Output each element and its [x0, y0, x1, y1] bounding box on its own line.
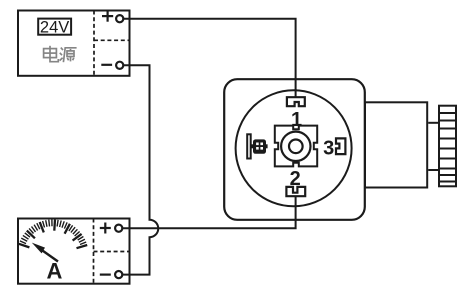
connector rear body — [365, 102, 427, 187]
pin 1 contact — [287, 97, 305, 106]
24V value box — [38, 19, 71, 35]
pin 2 contact — [286, 187, 305, 196]
center bore inner — [289, 140, 303, 154]
svg-text:A: A — [47, 258, 63, 283]
power terminal separator (dashed) — [94, 11, 129, 76]
ammeter terminal separator (dashed) — [94, 219, 130, 284]
center bore outer — [281, 132, 310, 161]
wire stub into pin 1 — [295, 89, 297, 97]
ground knurled screw — [251, 139, 267, 153]
ammeter needle — [32, 243, 58, 262]
connector face circle — [236, 90, 352, 206]
ammeter scale ticks — [19, 220, 87, 249]
label 电 (power supply) — [44, 46, 59, 62]
ammeter box M1 — [18, 219, 130, 284]
ground contact plate — [247, 134, 251, 158]
connector housing (DIN plug, front view) — [224, 79, 365, 220]
svg-text:3: 3 — [323, 138, 334, 160]
ammeter - terminal — [100, 271, 122, 278]
gland neck stub top — [428, 122, 439, 124]
power - terminal — [101, 62, 123, 69]
power + terminal — [102, 11, 123, 23]
pin 3 contact — [336, 138, 345, 154]
svg-text:24V: 24V — [40, 18, 69, 36]
power supply box PS1 — [18, 11, 130, 76]
ammeter + terminal — [100, 223, 122, 234]
wire: power - down to ammeter - (hops over pin2 wire) — [123, 65, 158, 274]
gland neck stub bottom — [428, 169, 439, 171]
wire: power + to connector pin 1 — [124, 19, 296, 97]
cable gland thread — [439, 106, 456, 187]
wire: ammeter + to connector pin 2 — [123, 197, 296, 229]
label 源 (power supply) — [60, 48, 77, 63]
wire stub below pin 2 — [295, 197, 297, 208]
center keyway square — [275, 126, 317, 167]
